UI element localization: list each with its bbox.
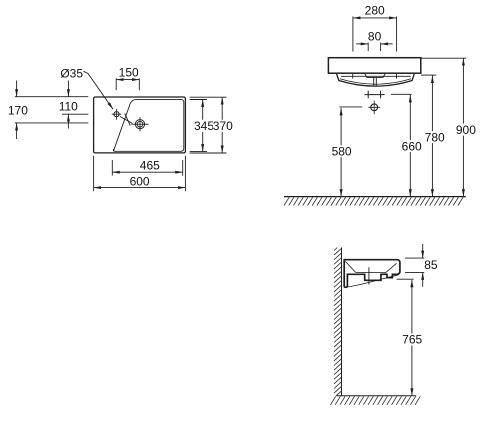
basin body rectangle (front) [328,58,420,73]
plan view labels [7,66,233,189]
dim 170 arrows [16,81,18,97]
side view labels [401,258,438,347]
right extension lines 345 top [190,99,207,101]
dim 85 arrows [422,244,424,258]
drain hole crosshair [132,117,149,131]
extension line to dim 660 [391,93,412,95]
svg-text:345: 345 [194,119,214,133]
label 370 [213,120,233,132]
extension line for 900 [421,57,466,59]
pedestal sag curve (side) [346,275,399,287]
front view labels [331,4,477,159]
label 345 [194,120,214,132]
svg-text:465: 465 [140,159,160,173]
dim 85 bottom extension [405,271,424,273]
label 110 [57,100,79,112]
svg-text:765: 765 [402,333,422,347]
faucet holes line (front) [365,94,385,96]
under-basin inner arc [340,79,411,84]
floor line (side) [336,395,416,397]
svg-text:370: 370 [213,119,233,133]
dim 85 top extension [405,257,424,259]
mounting hole tick right [396,74,398,79]
dim 465 extension ticks [112,160,182,176]
svg-text:280: 280 [365,4,385,18]
label 580 [331,145,353,157]
dim 110 bottom extension line [62,113,88,115]
under-basin outer outline [337,74,415,86]
svg-text:170: 170 [8,104,28,118]
basin outer rectangle (plan) [94,97,186,153]
ground hatching (front view) [284,197,463,205]
dim 345 line [202,100,204,152]
svg-text:600: 600 [130,175,150,189]
faucet hole tick right (front) [380,91,382,99]
svg-text:580: 580 [332,145,352,159]
svg-text:900: 900 [456,123,476,137]
svg-text:660: 660 [402,139,422,153]
svg-text:80: 80 [368,30,382,44]
tap platform trapezoid [365,74,385,77]
drain center line (side) [368,267,370,284]
drain hole inner circle (plan) [137,121,143,127]
svg-text:780: 780 [425,130,445,144]
svg-text:150: 150 [119,66,139,80]
dim 600 line [94,187,186,189]
dim 660 line [409,95,411,197]
floor hatching (side view) [331,396,421,405]
wall hatching (side view) [334,248,342,396]
leader line from Ø35 label [84,71,114,109]
dim 280 extension lines [353,17,397,52]
drain circle (front) [371,104,378,111]
label 780 [424,131,446,143]
dim 150 line [116,79,139,81]
dim 170/110 top extension line [15,96,89,98]
right extension lines 345 bottom [190,150,207,152]
dim 110 arrows [67,81,69,97]
dim 370 line [221,97,223,153]
basin interior thin line (side) [345,261,396,272]
under-basin inner top line [341,75,411,77]
label 170 [7,104,29,116]
dim 765 top extension [397,278,414,280]
wall line (side) [341,248,343,396]
dim 465 line [112,171,182,173]
faucet hole small circle [114,112,119,117]
mounting hole tick left [352,74,354,79]
faucet hole crosshair [112,109,121,120]
dim 80 outside arrows [356,43,368,45]
label 765 [401,333,423,345]
dim 150 extension ticks [116,78,139,90]
svg-text:110: 110 [59,100,78,114]
connector line between holes [120,117,133,124]
dim 170 bottom extension line [15,122,89,124]
drain pipe lines (front) [374,77,377,86]
dim 780 line [431,76,433,197]
label 900 [455,124,477,136]
extension line for 780 [421,74,437,76]
right extension lines 370 top [190,96,227,98]
dim 600 extension lines [94,156,186,192]
svg-text:85: 85 [424,258,438,272]
short diagonal tick between holes [125,113,131,125]
extension line for 580 [339,106,362,108]
drain hole outer circle (plan) [135,120,144,129]
dim 900 line [462,58,464,196]
label 660 [401,140,423,152]
dim 765 line [411,280,413,396]
ground line (front) [284,196,466,198]
dim 280 line [353,17,397,19]
basin inner rim outline (plan) [113,99,183,151]
dim 580 line [340,108,342,197]
faucet hole tick left (front) [367,91,369,99]
basin side profile thick outline [344,260,400,288]
svg-text:Ø35: Ø35 [60,66,83,80]
right extension lines 370 bottom [190,152,227,154]
dim 80 extension ticks [368,43,380,52]
drain crosshair (front) [368,101,380,115]
